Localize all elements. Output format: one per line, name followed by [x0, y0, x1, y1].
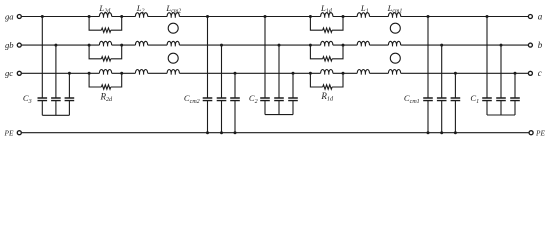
junction dots L1d//R1d (phase c): [309, 72, 345, 75]
choke Lcm2 winding (phase c): [167, 69, 179, 74]
junction dots L2d//R2d (phase a): [88, 15, 124, 18]
inductor L2 winding (phase b): [135, 41, 147, 46]
node C1 star bus: [487, 114, 515, 116]
terminal PE right: [529, 131, 533, 135]
svg-text:R2d: R2d: [99, 91, 113, 103]
junction C1a-phase a: [486, 15, 489, 18]
wire phase a segment 4: [179, 16, 320, 18]
terminal gc: [17, 71, 21, 75]
wire Ccm2b column: [221, 45, 223, 133]
junction Ccm2b-phase b: [220, 44, 223, 47]
wire C2c column: [292, 73, 294, 114]
svg-text:Ccm1: Ccm1: [404, 93, 420, 105]
wire C2b column: [278, 45, 280, 115]
svg-text:gb: gb: [5, 40, 14, 50]
choke Lcm2 winding (phase a): [167, 13, 179, 18]
capacitor Ccm1c: [451, 98, 461, 101]
wire phase a segment 3: [148, 16, 167, 18]
wire C3b column: [55, 45, 57, 115]
capacitor C2b: [274, 98, 284, 101]
resistor R1d (phase c): [323, 85, 332, 89]
capacitor C3c: [65, 98, 75, 101]
wire R1d branch (phase c): [310, 73, 343, 87]
wire phase b segment 5: [333, 44, 357, 46]
wire phase a segment 2: [112, 16, 136, 18]
junction Ccm1c-phase c: [454, 72, 457, 75]
svg-text:C2: C2: [249, 93, 258, 105]
wire R1d branch (phase b): [310, 45, 343, 59]
junction dots L2d//R2d (phase c): [88, 72, 124, 75]
wire Ccm1a column: [427, 17, 429, 133]
junction Ccm1a-PE: [427, 131, 430, 134]
terminal PE left: [17, 131, 21, 135]
junction C2a-phase a: [264, 15, 267, 18]
wire phase c segment 3: [148, 72, 167, 74]
capacitor C3a: [38, 98, 48, 101]
wire phase b segment 6: [370, 44, 389, 46]
capacitor C2a: [260, 98, 270, 101]
wire Ccm2c column: [234, 73, 236, 132]
terminal a: [528, 15, 532, 19]
svg-text:a: a: [538, 11, 543, 21]
choke core Lcm2 (circle 1): [168, 23, 178, 33]
terminal ga: [17, 15, 21, 19]
junction C3b-phase b: [54, 44, 57, 47]
inductor L2 winding (phase a): [135, 13, 147, 18]
wire phase a segment 6: [370, 16, 389, 18]
wire phase c segment 6: [370, 72, 389, 74]
node C2 star bus: [265, 114, 293, 116]
capacitor C1a: [482, 98, 492, 101]
junction C3c-phase c: [68, 72, 71, 75]
wire R2d branch (phase c): [89, 73, 122, 87]
inductor L2d winding (phase a): [99, 13, 111, 18]
wire phase b segment 2: [112, 44, 136, 46]
wire C1b column: [500, 45, 502, 115]
terminal gb: [17, 43, 21, 47]
junction Ccm1c-PE: [454, 131, 457, 134]
wire phase b segment 4: [179, 44, 320, 46]
inductor L2d winding (phase b): [99, 41, 111, 46]
junction C2c-phase c: [292, 72, 295, 75]
wire C3c column: [68, 73, 70, 115]
junction dots L2d//R2d (phase b): [88, 44, 124, 47]
inductor L1d winding (phase a): [321, 13, 333, 18]
junction dots L1d//R1d (phase b): [309, 44, 345, 47]
svg-text:R1d: R1d: [320, 91, 334, 103]
junction C1c-phase c: [514, 72, 517, 75]
inductor L1 winding (phase c): [357, 69, 369, 74]
node C3 star bus: [42, 114, 69, 116]
svg-text:Ccm2: Ccm2: [184, 93, 200, 105]
capacitor C3b: [51, 98, 61, 101]
wire phase c segment 5: [333, 72, 357, 74]
junction C3a-phase a: [41, 15, 44, 18]
resistor R1d (phase b): [323, 57, 332, 61]
junction Ccm2c-phase c: [234, 72, 237, 75]
svg-text:C3: C3: [23, 93, 32, 105]
wire C1c column: [514, 73, 516, 115]
inductor L1d winding (phase c): [321, 69, 333, 74]
svg-text:PE: PE: [4, 128, 14, 137]
wire phase b segment 3: [148, 44, 167, 46]
choke Lcm1 winding (phase b): [388, 41, 400, 46]
choke Lcm2 winding (phase b): [167, 41, 179, 46]
svg-text:c: c: [538, 68, 542, 78]
junction Ccm1a-phase a: [427, 15, 430, 18]
capacitor Ccm1b: [437, 98, 447, 101]
inductor L1 winding (phase b): [357, 41, 369, 46]
svg-text:gc: gc: [5, 68, 13, 78]
junction Ccm2c-PE: [234, 131, 237, 134]
choke core Lcm2 (circle 2): [168, 53, 178, 63]
terminal c: [528, 71, 532, 75]
inductor L2d winding (phase c): [99, 70, 111, 75]
wire PE rail: [22, 132, 529, 134]
resistor R2d (phase b): [101, 57, 110, 61]
wire R1d branch (phase a): [310, 17, 343, 31]
wire Ccm1c column: [454, 73, 456, 132]
svg-text:C1: C1: [470, 93, 479, 105]
wire C2a column: [264, 17, 266, 115]
capacitor Ccm2b: [217, 98, 227, 101]
wire phase b segment 7: [401, 44, 529, 46]
wire phase a segment 1: [22, 16, 100, 18]
junction Ccm2a-phase a: [206, 15, 209, 18]
inductor L2 winding (phase c): [135, 69, 147, 74]
wire phase a segment 5: [333, 16, 357, 18]
wire Ccm1b column: [441, 45, 443, 133]
wire Ccm2a column: [207, 17, 209, 133]
choke core Lcm1 (circle 2): [390, 53, 400, 63]
capacitor Ccm2c: [230, 98, 240, 101]
junction Ccm2b-PE: [220, 131, 223, 134]
junction C1b-phase b: [500, 44, 503, 47]
capacitor C1c: [510, 98, 520, 101]
wire R2d branch (phase b): [89, 45, 122, 59]
wire C1a column: [486, 17, 488, 116]
capacitor Ccm2a: [203, 98, 213, 101]
junction dots L1d//R1d (phase a): [309, 15, 345, 18]
junction C2b-phase b: [278, 44, 281, 47]
choke core Lcm1 (circle 1): [390, 23, 400, 33]
wire phase c segment 7: [401, 72, 529, 74]
inductor L1d winding (phase b): [321, 41, 333, 46]
wire C3a column: [41, 17, 43, 116]
inductor L1 winding (phase a): [357, 13, 369, 18]
resistor R2d (phase a): [101, 28, 110, 32]
junction Ccm2a-PE: [206, 131, 209, 134]
svg-text:b: b: [538, 40, 543, 50]
wire phase c segment 2: [112, 72, 136, 74]
choke Lcm1 winding (phase a): [388, 13, 400, 18]
terminal b: [528, 43, 532, 47]
junction Ccm1b-phase b: [440, 44, 443, 47]
capacitor Ccm1a: [423, 98, 433, 101]
capacitor C2c: [288, 98, 298, 101]
junction Ccm1b-PE: [440, 131, 443, 134]
resistor R1d (phase a): [323, 28, 332, 32]
svg-text:ga: ga: [5, 11, 14, 21]
wire R2d branch (phase a): [89, 17, 122, 31]
choke Lcm1 winding (phase c): [388, 69, 400, 74]
svg-text:PE: PE: [535, 128, 545, 137]
wire phase c segment 1: [22, 72, 100, 74]
wire phase c segment 4: [179, 72, 320, 74]
wire phase b segment 1: [22, 44, 100, 46]
wire phase a segment 7: [401, 16, 529, 18]
capacitor C1b: [496, 98, 506, 101]
resistor R2d (phase c): [101, 85, 110, 89]
